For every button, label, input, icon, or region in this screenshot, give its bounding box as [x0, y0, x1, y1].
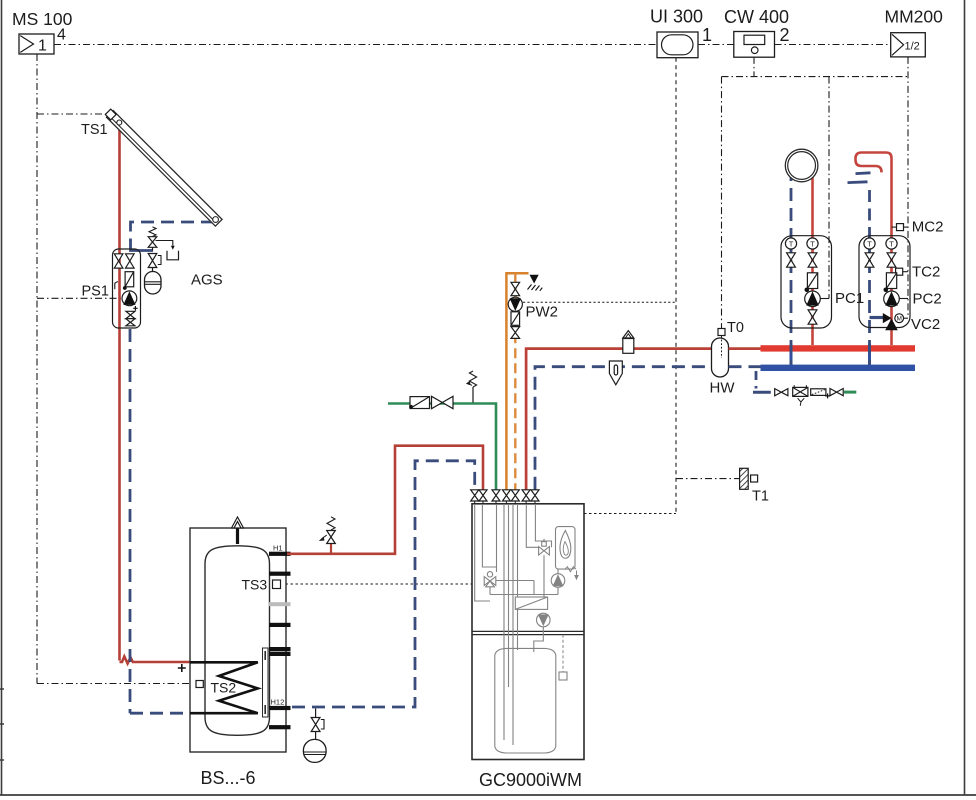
wire TS2 sensor branch — [37, 683, 196, 685]
wire T1 branch — [676, 478, 740, 480]
thermometer PC1 return — [785, 238, 796, 249]
collector outlet circle — [117, 120, 122, 125]
svg-text:CW 400: CW 400 — [724, 7, 789, 27]
svg-text:4: 4 — [57, 27, 66, 44]
svg-text:GC9000iWM: GC9000iWM — [479, 770, 582, 790]
boiler heat exchanger — [515, 597, 547, 609]
svg-text:1: 1 — [38, 38, 47, 55]
boiler 3way valve with actuator — [539, 539, 550, 555]
pump PC1 — [805, 291, 829, 307]
wire UI300 down leg — [675, 58, 677, 514]
fill valve 2 — [830, 389, 843, 396]
boiler burner — [556, 527, 576, 570]
svg-text:M: M — [896, 316, 901, 323]
valve boiler 3 — [492, 490, 500, 501]
riser PC2 return solid segment — [868, 344, 871, 367]
solar return elbow solid — [131, 240, 154, 251]
wire TS3 sensor line — [281, 583, 473, 585]
valve boiler 7 — [531, 490, 539, 501]
underfloor circuit return dashes blue — [848, 173, 871, 183]
fill valve 1 — [775, 389, 788, 396]
shut-off valve on cold water line — [432, 396, 454, 408]
svg-text:1/2: 1/2 — [905, 41, 920, 53]
boiler pump upper — [551, 574, 565, 588]
sensor MC2 — [892, 224, 909, 231]
heating circuit station PC2 — [859, 236, 910, 365]
page border bottom — [0, 794, 976, 796]
tap symbol — [528, 275, 543, 291]
valve PC1 return — [787, 253, 796, 267]
boiler pump lower — [537, 613, 551, 627]
boiler tank sensor line — [562, 635, 564, 672]
safety relief on cold water line — [466, 371, 477, 403]
underfloor circuit serpentine red — [856, 153, 892, 241]
sensor pocket mark on solar supply — [115, 282, 118, 290]
border tick marks — [0, 689, 4, 760]
valve boiler 1 — [471, 490, 479, 501]
solar return below station — [130, 329, 190, 713]
valve boiler 6 — [522, 490, 530, 501]
solar station PS1 frame — [113, 249, 141, 328]
svg-text:PC1: PC1 — [835, 290, 864, 307]
flow setter PC2 — [884, 273, 897, 292]
valve PC1 bottom — [808, 310, 817, 324]
hydraulic separator HW — [712, 338, 729, 377]
page border left — [1, 0, 3, 795]
shutoff valve solar — [126, 319, 135, 326]
cold water pipe green — [388, 404, 496, 490]
wire CW400 drop — [753, 57, 755, 77]
svg-text:HW: HW — [710, 380, 736, 397]
wire PC1 pump leg — [828, 77, 830, 299]
tank port H12 — [269, 706, 291, 710]
tank port H1 — [269, 552, 291, 556]
svg-text:BS...-6: BS...-6 — [201, 768, 256, 788]
svg-text:H12: H12 — [271, 698, 285, 707]
wire PW2 sensor line — [523, 301, 676, 303]
svg-text:1: 1 — [702, 25, 712, 45]
svg-text:TS1: TS1 — [81, 122, 108, 138]
tank port gray — [269, 602, 291, 606]
water meter — [811, 389, 830, 399]
svg-text:PW2: PW2 — [526, 304, 559, 321]
wire boiler to UI300 — [584, 513, 676, 515]
riser PC1 return solid segment — [790, 344, 793, 367]
boiler GC9000iWM casing — [472, 504, 584, 760]
sensor TC2 — [896, 268, 908, 275]
svg-text:T: T — [789, 239, 794, 248]
solar expansion vessel — [145, 272, 162, 295]
tank port 5 — [269, 652, 291, 656]
heating supply pipe red boiler to HW — [526, 349, 711, 490]
plus mark below pump — [133, 306, 138, 311]
return pipe HW to manifold dashed — [729, 365, 763, 368]
pump PC2 — [884, 291, 908, 307]
sensor TS3 — [273, 580, 281, 589]
module UI300 — [657, 32, 698, 58]
tank port 2 — [269, 572, 291, 576]
flow meter solar — [123, 272, 134, 290]
air vent on supply — [623, 331, 634, 354]
valve boiler 4 — [502, 490, 510, 501]
supply pipe HW to manifold — [729, 347, 763, 350]
page border right — [964, 0, 966, 795]
fill line stub blue — [753, 391, 771, 394]
module CW400 — [734, 32, 775, 58]
wire T0 into HW — [721, 336, 723, 358]
tank port 4 — [269, 647, 291, 651]
plus mark at tank inlet — [178, 664, 186, 672]
underfloor return drop blue — [868, 190, 871, 240]
wire UI300 to CW400 — [698, 44, 734, 46]
wire CW400 bus horizontal — [722, 76, 909, 78]
thermometer PC2 supply — [886, 238, 897, 249]
boiler section divider — [472, 631, 584, 634]
tank port 3 — [269, 623, 291, 627]
boiler safety valve — [565, 567, 578, 579]
system separator BA — [793, 385, 808, 406]
tank loading supply pipe red — [287, 446, 483, 554]
mixing valve VC2 — [870, 313, 909, 330]
valve PC2 return — [865, 253, 874, 267]
tank port 6 — [269, 725, 291, 729]
heating return pipe blue dashed boiler to HW — [535, 367, 712, 490]
wire MM200 down leg — [907, 57, 909, 318]
wire T0 leg — [721, 77, 723, 329]
fill water stub green — [844, 391, 856, 394]
svg-text:MM200: MM200 — [885, 7, 944, 27]
tank loading return pipe blue dashed — [292, 461, 475, 707]
flow meter PW2 — [511, 312, 520, 326]
sensor TS1 pocket — [105, 109, 116, 120]
valve PC1 supply — [808, 253, 817, 267]
expansion vessel at tank — [303, 739, 326, 762]
valve boiler 5 — [511, 490, 519, 501]
svg-text:2: 2 — [780, 25, 790, 45]
supply manifold bar — [761, 345, 916, 351]
svg-text:PS1: PS1 — [82, 284, 109, 300]
valve PC2 supply — [887, 253, 896, 267]
expansion vessel valve at tank — [311, 709, 324, 740]
svg-text:AGS: AGS — [191, 272, 223, 289]
solar return pipe blue dashed — [131, 222, 215, 241]
svg-text:UI 300: UI 300 — [650, 7, 703, 27]
boiler internal pipes — [475, 504, 490, 601]
dirt separator on return — [609, 361, 622, 385]
pump PS1 — [122, 291, 137, 306]
wire CW400 to MM200 — [775, 44, 891, 46]
tank internal port strip — [263, 648, 269, 717]
tank vent arrow — [232, 517, 244, 528]
svg-text:TS3: TS3 — [242, 577, 268, 593]
fill line drop blue — [755, 371, 758, 389]
DHW pipe orange — [506, 273, 528, 490]
thermometer PC1 supply — [807, 238, 818, 249]
svg-text:T1: T1 — [752, 489, 769, 505]
svg-text:PC2: PC2 — [913, 290, 942, 307]
storage tank vessel — [205, 546, 270, 736]
svg-text:T: T — [810, 239, 815, 248]
storage tank BS...-6 outer casing — [190, 528, 286, 752]
valve solar supply — [114, 254, 123, 268]
boiler connection valves row — [475, 501, 535, 504]
heating circuit station PC1 — [781, 236, 832, 365]
valve solar return — [126, 254, 135, 268]
DHW circulation pipe orange dashed — [514, 273, 516, 490]
svg-text:T: T — [889, 239, 894, 248]
sensor T1 — [740, 468, 758, 489]
wire MS100 down leg — [36, 54, 38, 684]
valve boiler 2 — [479, 490, 487, 501]
wire MS100 bus to UI300 — [54, 44, 657, 46]
svg-text:TS2: TS2 — [211, 680, 237, 696]
wire TS1 sensor branch — [37, 113, 106, 115]
boiler diverter valve left — [484, 572, 496, 587]
svg-text:MC2: MC2 — [912, 219, 944, 236]
svg-text:TC2: TC2 — [912, 264, 940, 281]
sensor TS2 — [196, 681, 203, 688]
flow setter PC1 — [805, 273, 818, 292]
thermometer PC2 return — [864, 238, 875, 249]
wire PS1 sensor branch — [37, 297, 122, 299]
filter on cold water line — [409, 397, 429, 409]
svg-text:VC2: VC2 — [911, 316, 940, 333]
boiler internal DHW tank — [495, 648, 556, 753]
solar coil TS2 inside tank — [190, 662, 258, 713]
check valve solar — [126, 311, 135, 318]
solar supply pipe red — [120, 123, 191, 664]
boiler tank sensor — [559, 672, 567, 680]
radiator circle heating circuit 1 — [785, 149, 818, 240]
safety valve on H1 line — [319, 517, 336, 554]
module MM200 — [891, 33, 926, 57]
solar collector — [106, 111, 222, 227]
valve above pump PW2 — [511, 282, 520, 295]
tank vent pipe — [236, 528, 239, 544]
return manifold bar — [761, 365, 916, 371]
solar fill valve — [148, 254, 161, 272]
sensor T0 — [718, 329, 725, 336]
svg-text:T: T — [867, 239, 872, 248]
valve below flow meter PW2 — [511, 327, 520, 339]
module MS100 — [19, 34, 54, 55]
drain container — [167, 251, 179, 260]
solar safety valve — [148, 227, 175, 251]
svg-text:H1: H1 — [273, 544, 283, 553]
pump PW2 — [508, 297, 522, 311]
svg-text:T0: T0 — [727, 320, 744, 336]
